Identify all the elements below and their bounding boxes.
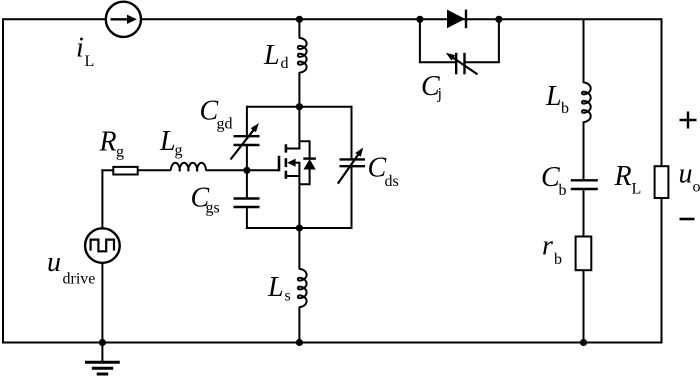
capacitor C_gs <box>234 199 260 208</box>
wire switch network bottom rail <box>247 227 352 229</box>
node: left of output diode <box>416 16 423 23</box>
svg-text:ds: ds <box>385 173 399 190</box>
plus sign <box>680 112 697 129</box>
inductor L_d <box>298 38 307 73</box>
node: right of output diode <box>495 16 502 23</box>
wire C_j branch right <box>466 19 499 62</box>
node: ground junction <box>99 339 106 346</box>
wire from top rail to L_b <box>583 19 585 83</box>
svg-text:L: L <box>159 126 176 157</box>
label u_drive <box>47 247 95 288</box>
wire from L_g to gate junction and transistor gate <box>206 169 280 171</box>
body diode of Q1 <box>299 141 316 184</box>
label L_s <box>267 272 291 305</box>
svg-text:L: L <box>632 181 642 198</box>
wire from L_d to switch network <box>298 72 300 107</box>
label i_L <box>76 33 94 71</box>
node: top of L_d branch <box>296 16 303 23</box>
transistor Q1 source wire <box>298 163 300 228</box>
wire top rail right of current source <box>141 18 661 20</box>
label L_d <box>263 40 289 72</box>
svg-text:i: i <box>76 33 84 64</box>
wire from switch network to L_s <box>298 228 300 270</box>
wire from r_b to bottom rail <box>583 270 585 342</box>
svg-text:gs: gs <box>206 200 220 217</box>
label C_gs <box>191 183 220 217</box>
wire top rail left of current source <box>3 18 105 20</box>
source u_drive <box>85 228 120 263</box>
wire left border <box>2 18 4 343</box>
inductor L_g <box>171 163 206 171</box>
wire from C_b to r_b <box>583 190 585 237</box>
diode D1 <box>447 10 466 29</box>
svg-text:o: o <box>693 179 700 196</box>
label L_g <box>159 126 183 159</box>
wire right border lower <box>661 198 663 344</box>
svg-text:R: R <box>614 161 632 192</box>
wire from u_drive to bottom rail <box>101 263 103 343</box>
label C_gd <box>200 96 233 133</box>
svg-text:d: d <box>281 55 289 72</box>
label u_o <box>679 159 700 196</box>
svg-text:b: b <box>559 182 567 199</box>
svg-text:R: R <box>99 127 117 158</box>
wire left capacitor branch upper <box>246 106 248 136</box>
wire left capacitor branch lower <box>246 208 248 229</box>
wire from L_b to C_b <box>583 122 585 180</box>
current source i_L <box>106 2 141 37</box>
svg-text:L: L <box>85 53 95 70</box>
resistor R_L <box>655 166 669 198</box>
label C_b <box>541 162 567 199</box>
label L_b <box>545 81 569 117</box>
node: gate wire junction <box>243 167 250 174</box>
capacitor C_ds (variable) <box>338 147 365 183</box>
svg-text:j: j <box>437 86 442 103</box>
ground <box>85 343 120 375</box>
svg-text:L: L <box>267 272 284 303</box>
wire between R_g and L_g <box>138 169 171 171</box>
wire gate lead from R_g to transistor <box>101 169 113 171</box>
svg-text:s: s <box>285 288 291 305</box>
label C_j <box>421 71 442 103</box>
node: switch network top <box>296 103 303 110</box>
svg-text:u: u <box>47 247 61 278</box>
wire from L_s to bottom rail <box>298 307 300 343</box>
wire right capacitor branch upper <box>351 106 353 159</box>
resistor r_b <box>576 237 592 271</box>
node: bottom of r_b <box>580 339 587 346</box>
svg-text:drive: drive <box>63 271 96 288</box>
resistor R_g <box>113 167 137 175</box>
svg-text:b: b <box>554 251 562 268</box>
svg-text:b: b <box>561 100 569 117</box>
wire switch network top rail <box>247 106 352 108</box>
svg-text:gd: gd <box>217 116 233 133</box>
label R_g <box>99 127 125 161</box>
node: bottom of L_s <box>296 339 303 346</box>
wire from gate corner down to u_drive <box>101 169 103 228</box>
capacitor C_gd (variable) <box>231 123 260 160</box>
capacitor C_j (variable) <box>446 53 478 75</box>
wire left capacitor branch middle <box>246 146 248 198</box>
wire right border upper <box>661 18 663 166</box>
capacitor C_b <box>571 180 598 189</box>
wire right capacitor branch lower <box>351 167 353 229</box>
svg-text:C: C <box>541 162 560 193</box>
wire bottom rail <box>3 342 662 344</box>
wire from top rail to L_d <box>298 19 300 38</box>
transistor Q1 <box>279 144 300 179</box>
label C_ds <box>368 153 399 191</box>
wire C_j branch left <box>420 19 455 62</box>
transistor Q1 drain wire <box>298 107 300 150</box>
label R_L <box>614 161 642 198</box>
minus sign <box>680 218 695 221</box>
svg-text:r: r <box>542 231 553 262</box>
svg-text:g: g <box>116 144 124 161</box>
label r_b <box>542 231 562 269</box>
inductor L_b <box>582 83 591 123</box>
inductor L_s <box>298 269 307 307</box>
svg-text:L: L <box>263 40 280 71</box>
svg-text:u: u <box>679 159 693 190</box>
node: switch network bottom <box>296 224 303 231</box>
svg-text:L: L <box>545 81 562 112</box>
svg-text:g: g <box>175 142 183 159</box>
